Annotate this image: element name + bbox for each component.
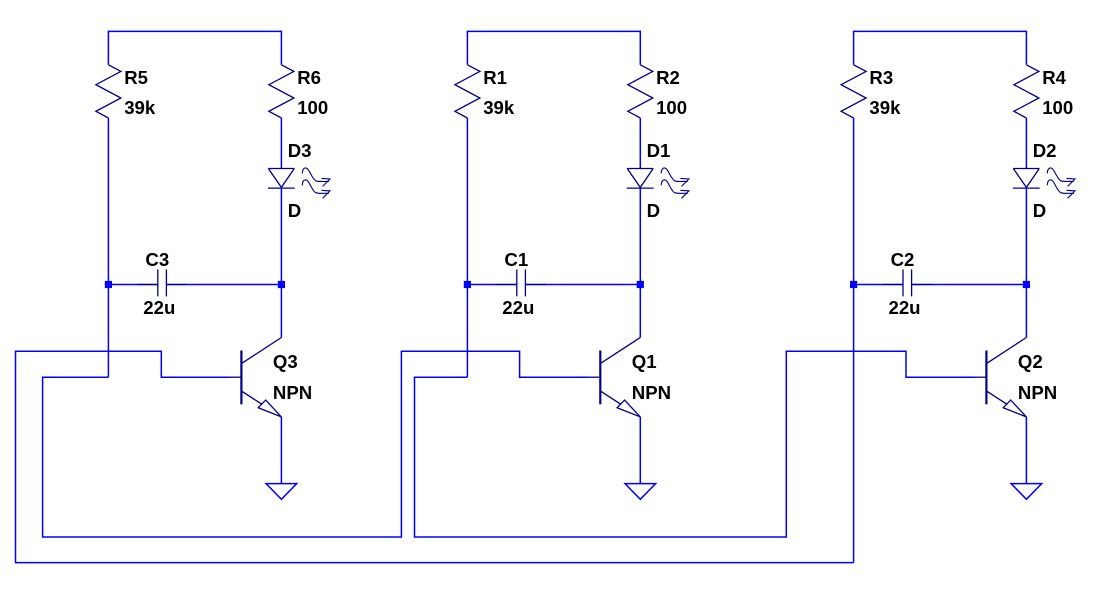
- wire emitter to ground: [1025, 417, 1027, 484]
- svg-text:D: D: [1033, 200, 1046, 221]
- svg-text:100: 100: [1042, 97, 1073, 118]
- wire R3 bottom to node: [853, 118, 855, 563]
- svg-text:22u: 22u: [502, 297, 534, 318]
- wire LED cathode to collector: [639, 188, 641, 337]
- wire LED cathode to collector: [280, 188, 282, 337]
- svg-text:R1: R1: [483, 67, 507, 88]
- resistor R4 100: [1014, 65, 1073, 118]
- svg-text:22u: 22u: [143, 297, 175, 318]
- stage 3 top rail wire: [854, 30, 1027, 32]
- svg-text:C2: C2: [891, 249, 915, 270]
- resistor R2 100: [628, 65, 687, 118]
- svg-text:39k: 39k: [869, 97, 901, 118]
- stage 2 top rail wire: [467, 30, 640, 32]
- wire R4 top lead: [1025, 31, 1027, 65]
- transistor Q3 NPN: [228, 338, 312, 417]
- wire LED cathode to collector: [1025, 188, 1027, 337]
- wire cap node horizontal: [467, 284, 516, 286]
- resistor R6 100: [269, 65, 328, 118]
- svg-text:NPN: NPN: [273, 382, 312, 403]
- wire R4 bottom to LED: [1025, 118, 1027, 169]
- wire cap node horizontal: [108, 284, 157, 286]
- svg-text:D1: D1: [647, 140, 671, 161]
- ground: [625, 484, 656, 500]
- resistor R1 39k: [455, 65, 515, 118]
- svg-text:Q3: Q3: [273, 351, 298, 372]
- node C2 left junction: [850, 281, 857, 288]
- ground: [1011, 484, 1042, 500]
- wire R6 bottom to LED: [280, 118, 282, 169]
- svg-text:C3: C3: [145, 249, 169, 270]
- capacitor C3 22u: [137, 249, 187, 318]
- stage 1 top rail wire: [108, 30, 281, 32]
- wire net: C2 node to Q3 base (outer loop): [16, 351, 854, 562]
- wire cap node horizontal: [854, 284, 903, 286]
- svg-text:C1: C1: [504, 249, 528, 270]
- capacitor C1 22u: [496, 249, 546, 318]
- svg-text:D2: D2: [1033, 140, 1057, 161]
- wire net: C1 node to Q2 base: [415, 351, 975, 537]
- transistor Q1 NPN: [587, 338, 671, 417]
- svg-text:R2: R2: [656, 67, 680, 88]
- svg-text:100: 100: [297, 97, 328, 118]
- node C2 right junction: [1023, 281, 1030, 288]
- svg-text:100: 100: [656, 97, 687, 118]
- svg-text:NPN: NPN: [1018, 382, 1057, 403]
- svg-text:39k: 39k: [483, 97, 515, 118]
- wire R3 top lead: [853, 31, 855, 65]
- svg-text:R5: R5: [124, 67, 148, 88]
- svg-text:D: D: [288, 200, 301, 221]
- wire R5 bottom to node: [107, 118, 109, 377]
- wire net: C3 node to Q1 base: [43, 351, 589, 537]
- resistor R3 39k: [841, 65, 901, 118]
- svg-text:R6: R6: [297, 67, 321, 88]
- transistor Q2 NPN: [973, 338, 1057, 417]
- svg-text:D3: D3: [288, 140, 312, 161]
- wire emitter to ground: [280, 417, 282, 484]
- wire R2 top lead: [639, 31, 641, 65]
- ground: [266, 484, 297, 500]
- LED D3: [268, 140, 330, 221]
- wire emitter to ground: [639, 417, 641, 484]
- svg-text:39k: 39k: [124, 97, 156, 118]
- wire R1 top lead: [466, 31, 468, 65]
- svg-text:D: D: [647, 200, 660, 221]
- LED D2: [1013, 140, 1075, 221]
- svg-text:R4: R4: [1042, 67, 1066, 88]
- capacitor C2 22u: [882, 249, 932, 318]
- wire R5 top lead: [107, 31, 109, 65]
- svg-text:Q2: Q2: [1018, 351, 1043, 372]
- svg-text:Q1: Q1: [632, 351, 657, 372]
- resistor R5 39k: [96, 65, 156, 118]
- wire R1 bottom to node: [466, 118, 468, 377]
- svg-text:R3: R3: [869, 67, 893, 88]
- node C1 left junction: [464, 281, 471, 288]
- wire R2 bottom to LED: [639, 118, 641, 169]
- node C3 left junction: [105, 281, 112, 288]
- svg-text:22u: 22u: [889, 297, 921, 318]
- node C1 right junction: [637, 281, 644, 288]
- node C3 right junction: [278, 281, 285, 288]
- LED D1: [627, 140, 689, 221]
- svg-text:NPN: NPN: [632, 382, 671, 403]
- wire R6 top lead: [280, 31, 282, 65]
